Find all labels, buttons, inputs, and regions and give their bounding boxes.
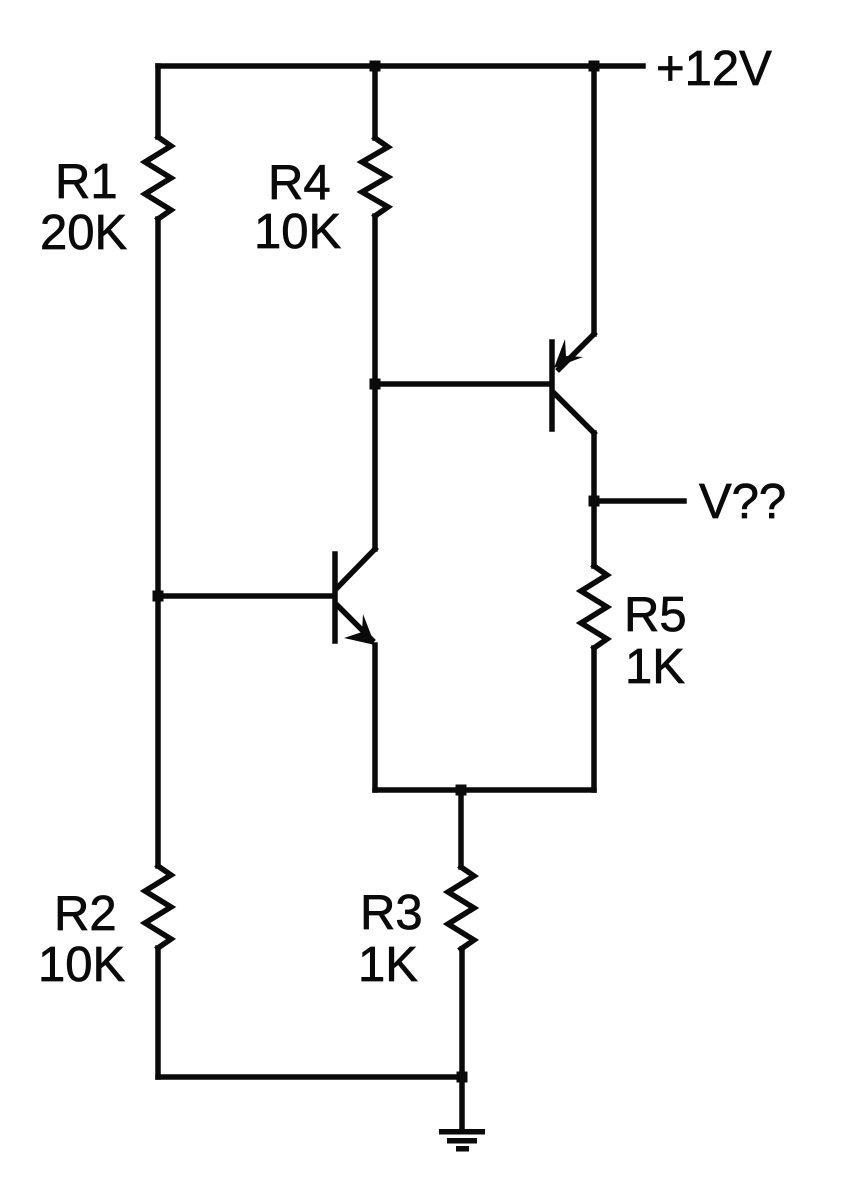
resistor R1 (145, 137, 171, 219)
node junction: top rail / Q2 emitter (589, 61, 600, 72)
wire Q2 base wire (375, 381, 550, 387)
ground symbol bars (439, 1129, 485, 1135)
resistor R2 (145, 866, 171, 948)
svg-text:R3: R3 (360, 886, 423, 940)
node junction: V?? output (589, 496, 600, 507)
svg-text:R2: R2 (54, 887, 117, 941)
node junction: R3 top (456, 785, 467, 796)
resistor R4 (362, 138, 388, 216)
node junction: Q2 base / R4 bottom (370, 379, 381, 390)
transistor Q1 emitter arrow (344, 614, 375, 645)
wire Q2 emitter up (591, 66, 597, 334)
svg-text:R5: R5 (624, 588, 687, 642)
svg-text:20K: 20K (40, 206, 128, 260)
svg-text:V??: V?? (699, 475, 786, 529)
svg-text:R1: R1 (55, 155, 118, 209)
wire V?? to R5 (591, 501, 597, 566)
wire Q1 base wire (158, 593, 333, 599)
transistor Q2 body (552, 334, 594, 433)
svg-text:R4: R4 (268, 156, 331, 210)
node junction: ground (457, 1072, 468, 1083)
wire R4 branch: rail to R4 (372, 66, 378, 138)
wire R5 bottom (591, 648, 597, 790)
wire bottom rail (158, 1074, 462, 1080)
svg-text:1K: 1K (625, 640, 685, 694)
node junction: Q1 base / divider (153, 591, 164, 602)
wire emitter rail (375, 787, 594, 793)
wire V?? stub (594, 498, 684, 504)
svg-text:10K: 10K (38, 938, 126, 992)
resistor R5 (581, 566, 607, 648)
wire left column: R1 to R2 (155, 219, 161, 866)
transistor Q1 body (335, 549, 375, 641)
transistor Q2 emitter arrow (554, 339, 583, 368)
wire left column: R2 to bottom rail (155, 948, 161, 1077)
wire left column: rail to R1 (155, 66, 161, 137)
ground stub (459, 1077, 465, 1130)
wire R3 bottom (459, 949, 465, 1077)
svg-text:1K: 1K (358, 938, 418, 992)
svg-text:+12V: +12V (656, 42, 772, 96)
wire R3 top (458, 790, 464, 867)
resistor R3 (448, 867, 474, 949)
svg-text:10K: 10K (254, 205, 342, 259)
node junction: top rail / R4 (370, 61, 381, 72)
wire Q1 emitter down (372, 645, 378, 790)
wire R4 bottom to Q1 collector (372, 216, 378, 549)
wire Q2 collector down (591, 433, 597, 501)
wire top +12V rail (158, 63, 643, 69)
